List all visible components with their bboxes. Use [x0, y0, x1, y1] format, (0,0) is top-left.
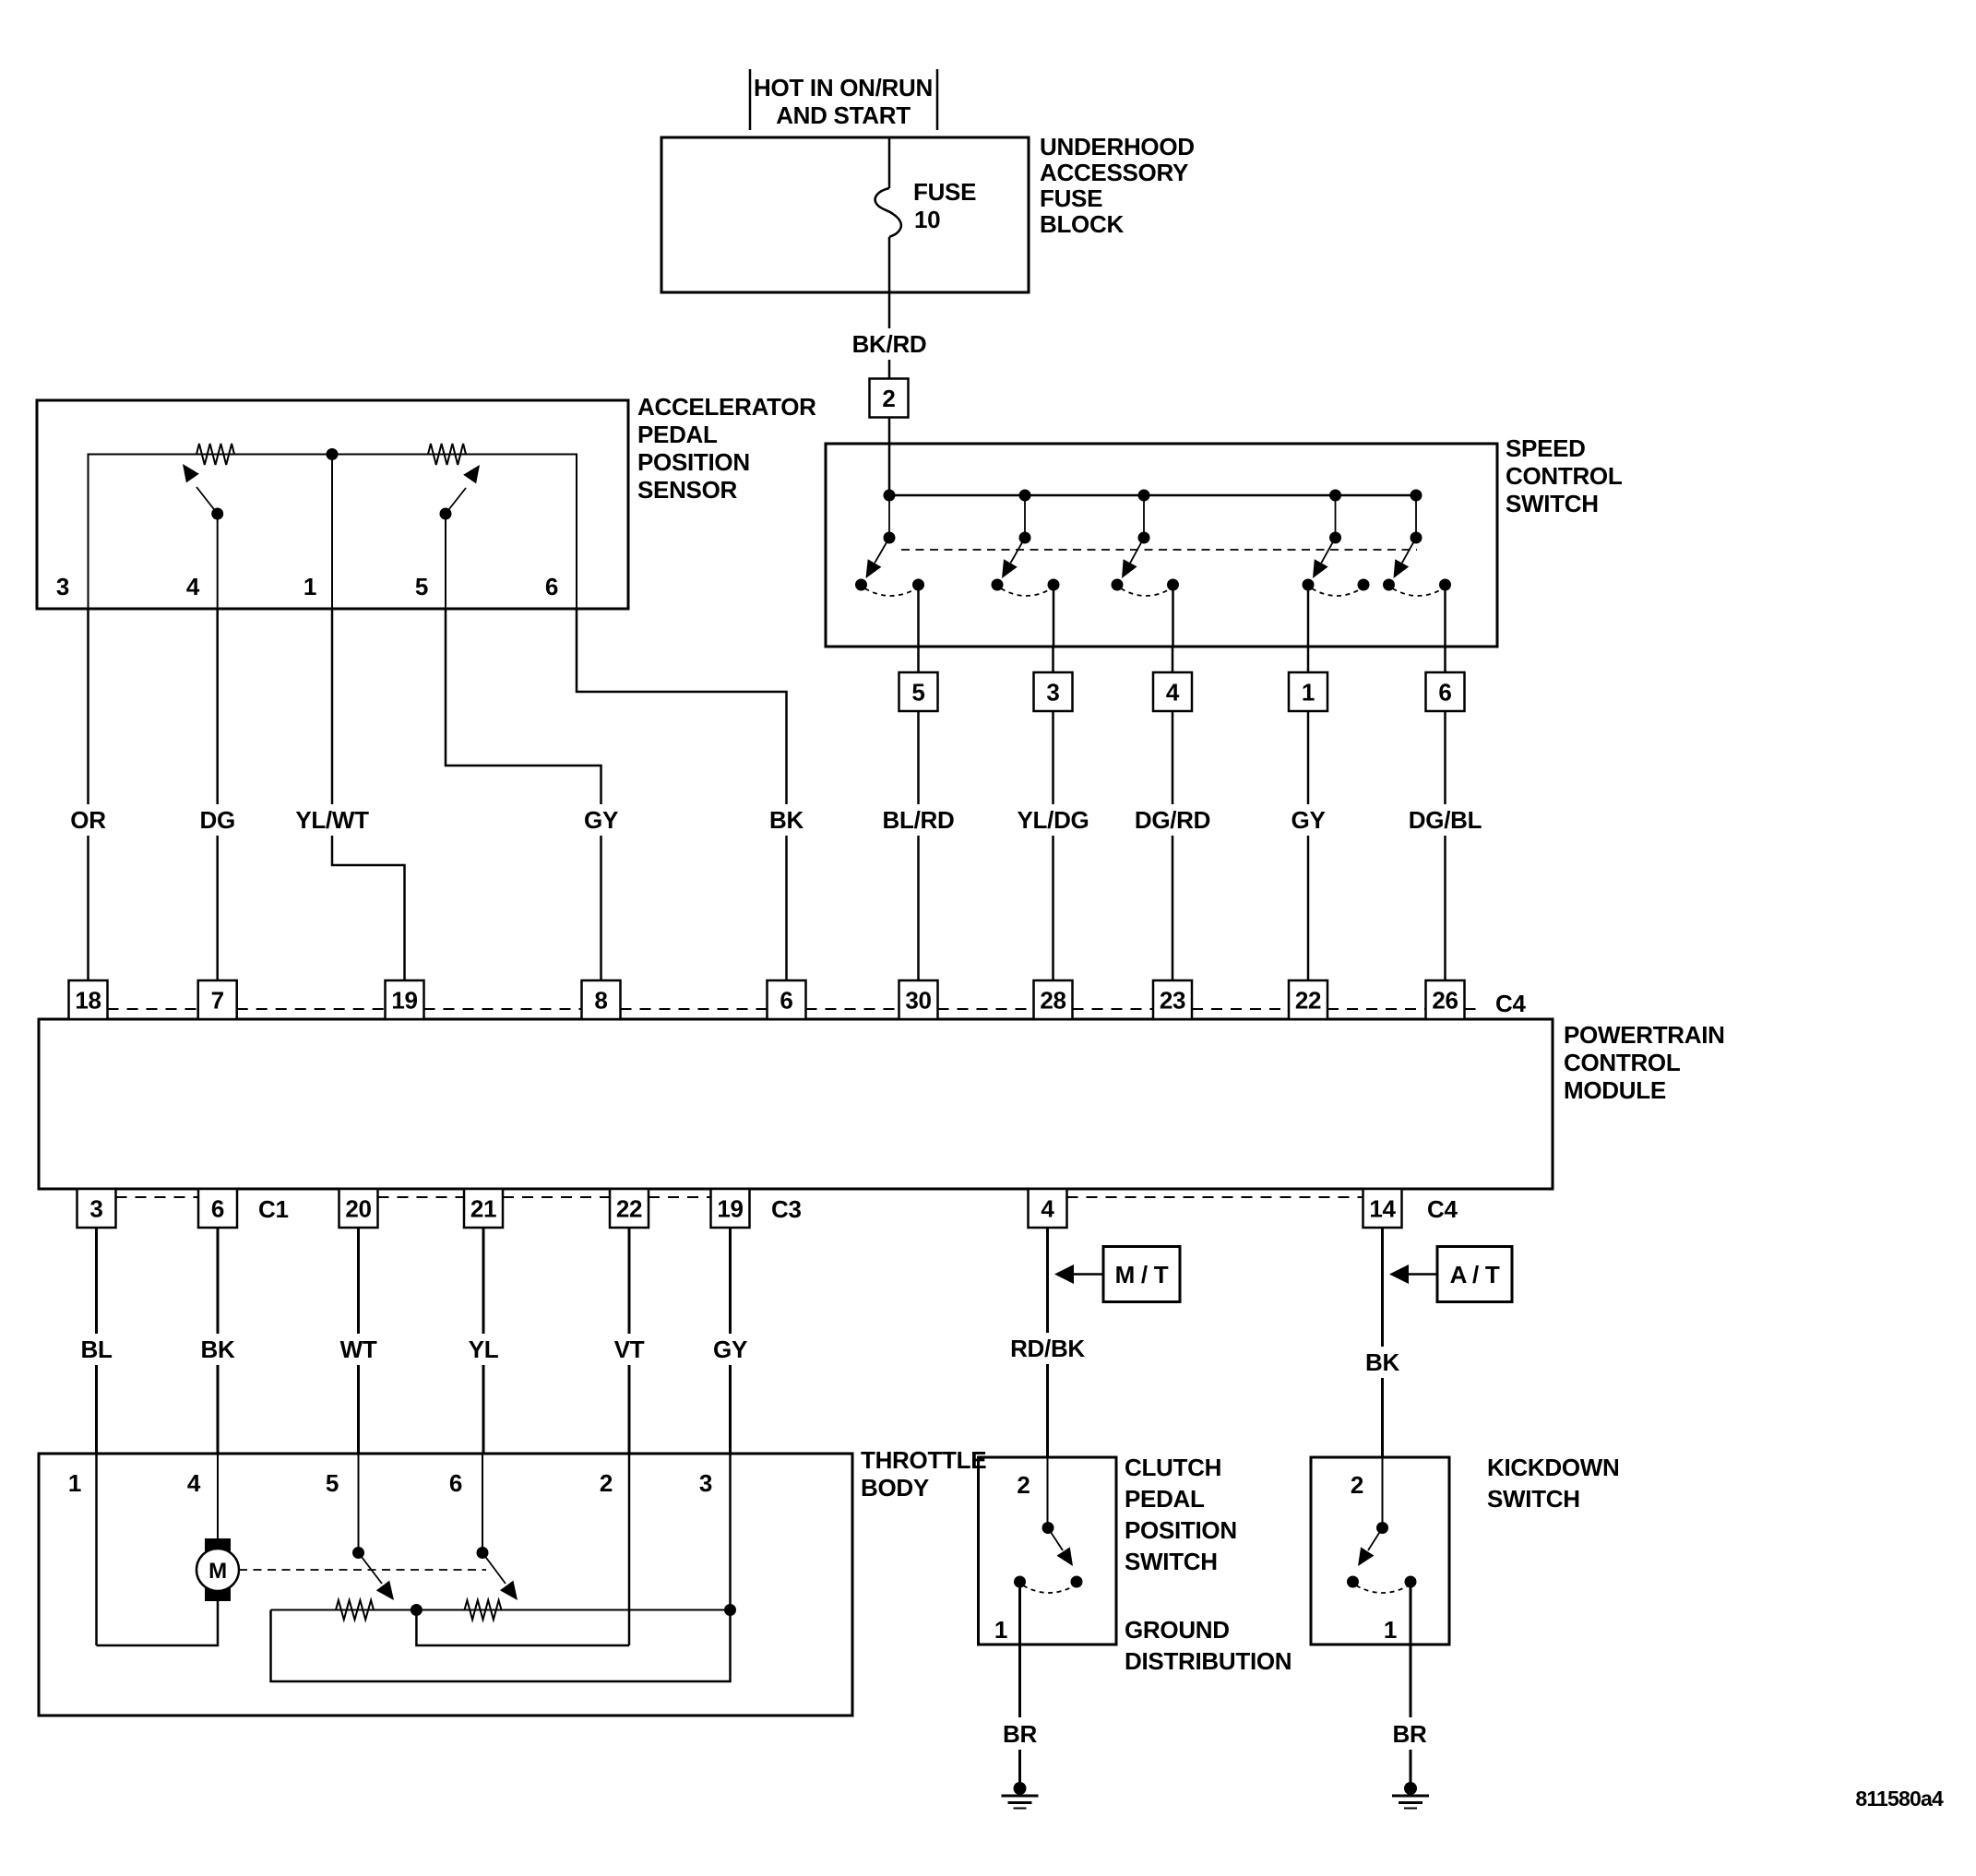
M/T manual transmission flag: [1054, 1247, 1180, 1302]
PCM bottom connector pin 6: [198, 1189, 237, 1228]
TPS wiper 2 (pin 6): [477, 1454, 518, 1600]
PCM connector C4 pin 7: [198, 980, 237, 1019]
svg-text:28: 28: [1040, 987, 1065, 1015]
speed control switch 1 (ON): [855, 490, 924, 647]
node junction between TPS tracks: [411, 1604, 423, 1616]
wire DG/BL from switch pin 6 to PCM pin 26: [1406, 711, 1484, 980]
svg-text:SWITCH: SWITCH: [1125, 1548, 1218, 1575]
svg-text:19: 19: [391, 987, 417, 1015]
PCM bottom connector pin 20: [339, 1189, 378, 1228]
svg-text:GY: GY: [1292, 806, 1326, 834]
svg-text:GY: GY: [713, 1336, 747, 1363]
svg-text:6: 6: [780, 987, 792, 1015]
wire entry to bus: [888, 444, 891, 495]
underhood accessory fuse block: [661, 133, 1195, 292]
speed control switch box: [826, 434, 1623, 647]
svg-text:DG/RD: DG/RD: [1135, 806, 1210, 834]
wire VT from PCM to throttle body pin 2: [611, 1228, 648, 1454]
fuse FUSE 10: [875, 178, 976, 237]
svg-text:PEDAL: PEDAL: [1125, 1485, 1205, 1513]
wire DG from APPS pin 4 to PCM pin 7: [199, 609, 236, 980]
wire WT from PCM to throttle body pin 5: [340, 1228, 377, 1454]
svg-text:C4: C4: [1427, 1195, 1458, 1223]
PCM top connector dashed separators: [108, 1008, 1484, 1010]
connector pin 2: [870, 379, 909, 418]
APPS internal rail wire: [89, 455, 577, 610]
svg-text:2: 2: [882, 385, 895, 412]
svg-text:M: M: [208, 1559, 227, 1584]
clutch switch contact and arm: [1014, 1457, 1083, 1593]
svg-text:YL: YL: [469, 1336, 499, 1363]
TPS wiper 1 (pin 5): [352, 1454, 394, 1600]
svg-text:3: 3: [699, 1469, 712, 1497]
PCM connector C4 pin 6: [768, 980, 806, 1019]
svg-text:5: 5: [911, 679, 924, 706]
wire pin 3 (GY) through rail to bottom loop: [271, 1454, 731, 1681]
connector pin 6 of speed control switch: [1426, 647, 1465, 711]
svg-text:26: 26: [1432, 987, 1458, 1015]
svg-text:YL/DG: YL/DG: [1018, 806, 1089, 834]
svg-text:8: 8: [594, 987, 607, 1015]
powertrain control module box: [39, 1019, 1725, 1189]
wire from fuse block top to fuse: [888, 137, 891, 188]
wire connector 2 to speed control switch: [888, 418, 891, 445]
svg-text:OR: OR: [70, 806, 106, 834]
A/T automatic transmission flag: [1389, 1247, 1512, 1302]
svg-text:BR: BR: [1003, 1720, 1037, 1748]
PCM connector C4 pin 23: [1153, 980, 1192, 1019]
svg-text:KICKDOWN: KICKDOWN: [1487, 1454, 1619, 1481]
wire pin 1 (inside APPS): [331, 455, 333, 610]
resistor R4 (TPS track 2): [465, 1600, 502, 1620]
svg-text:4: 4: [186, 573, 200, 600]
PCM bottom connector pin 19: [711, 1189, 750, 1228]
svg-text:4: 4: [1041, 1195, 1054, 1223]
accelerator pedal position sensor box: [37, 393, 816, 609]
resistor R2 (APPS track 2): [428, 444, 466, 465]
svg-text:FUSE: FUSE: [1040, 184, 1102, 212]
svg-text:5: 5: [326, 1469, 339, 1497]
svg-text:C4: C4: [1495, 990, 1526, 1017]
PCM bottom connector pin 14: [1363, 1189, 1402, 1228]
svg-text:2: 2: [1351, 1471, 1363, 1499]
PCM connector C4 pin 28: [1034, 980, 1073, 1019]
svg-text:6: 6: [545, 573, 558, 600]
svg-text:HOT IN ON/RUN: HOT IN ON/RUN: [754, 74, 933, 101]
svg-text:4: 4: [187, 1469, 201, 1497]
PCM connector C4 pin 8: [582, 980, 621, 1019]
svg-text:3: 3: [89, 1195, 102, 1223]
svg-text:30: 30: [905, 987, 931, 1015]
PCM connector C4 pin 18: [69, 980, 108, 1019]
wire kickdown pin 1 to ground (BR): [1391, 1582, 1428, 1782]
svg-text:2: 2: [1017, 1471, 1030, 1499]
svg-text:WT: WT: [340, 1336, 377, 1363]
svg-text:ACCESSORY: ACCESSORY: [1040, 159, 1188, 186]
kickdown switch contact and arm: [1347, 1457, 1417, 1593]
svg-text:POSITION: POSITION: [637, 448, 750, 476]
wire BL/RD from switch pin 5 to PCM pin 30: [879, 711, 958, 980]
wire YL from PCM to throttle body pin 6: [465, 1228, 502, 1454]
wire OR from APPS pin 3 to PCM pin 18: [70, 609, 107, 980]
svg-text:ACCELERATOR: ACCELERATOR: [637, 393, 816, 421]
svg-text:CONTROL: CONTROL: [1564, 1049, 1681, 1076]
wire BK from PCM to throttle body pin 4: [199, 1228, 236, 1454]
connector pin 4 of speed control switch: [1153, 647, 1192, 711]
svg-text:SWITCH: SWITCH: [1487, 1485, 1580, 1513]
wire pin 4 to motor: [217, 1454, 219, 1538]
svg-text:BODY: BODY: [861, 1474, 929, 1502]
svg-text:POSITION: POSITION: [1125, 1516, 1237, 1544]
svg-text:C3: C3: [771, 1195, 802, 1223]
svg-text:SENSOR: SENSOR: [637, 476, 738, 504]
speed control switch 5 (OFF): [1383, 490, 1451, 647]
svg-text:YL/WT: YL/WT: [295, 806, 369, 834]
wire clutch pin 1 to ground (BR): [1002, 1582, 1039, 1782]
svg-text:1: 1: [1302, 679, 1315, 706]
svg-text:DISTRIBUTION: DISTRIBUTION: [1125, 1647, 1292, 1675]
wire BK/RD from fuse to connector 2: [851, 237, 929, 379]
svg-text:GY: GY: [584, 806, 618, 834]
wire GY from PCM to throttle body pin 3: [712, 1228, 749, 1454]
svg-text:M / T: M / T: [1115, 1261, 1169, 1288]
svg-text:SPEED: SPEED: [1506, 434, 1586, 462]
svg-text:6: 6: [1438, 679, 1451, 706]
PCM bottom connector pin 3: [77, 1189, 116, 1228]
svg-text:19: 19: [717, 1195, 743, 1223]
APPS wiper 1 (pin 4): [183, 464, 223, 609]
wire GY from switch pin 1 to PCM pin 22: [1290, 711, 1327, 980]
svg-text:AND START: AND START: [776, 101, 911, 129]
PCM bottom connector dashed separators: [116, 1196, 1363, 1198]
svg-text:FUSE: FUSE: [913, 178, 976, 206]
svg-text:BR: BR: [1393, 1720, 1427, 1748]
svg-text:1: 1: [994, 1616, 1007, 1644]
wire motor to pin 1 loop: [97, 1454, 219, 1645]
svg-text:20: 20: [345, 1195, 371, 1223]
svg-text:BK/RD: BK/RD: [852, 330, 927, 358]
mechanical coupling dashed line: [901, 549, 1417, 551]
svg-text:BL/RD: BL/RD: [883, 806, 955, 834]
power feed label HOT IN ON/RUN AND START: [750, 69, 937, 130]
svg-text:3: 3: [56, 573, 69, 600]
svg-text:3: 3: [1046, 679, 1059, 706]
connector pin 5 of speed control switch: [899, 647, 938, 711]
ground symbol (kickdown): [1410, 1782, 1412, 1788]
svg-text:7: 7: [211, 987, 224, 1015]
speed control switch 4 (CANCEL): [1303, 490, 1370, 647]
svg-text:6: 6: [211, 1195, 224, 1223]
PCM connector C4 pin 19: [386, 980, 424, 1019]
resistor R3 (TPS track 1): [336, 1600, 374, 1620]
svg-text:2: 2: [600, 1469, 613, 1497]
PCM connector C4 pin 22: [1289, 980, 1327, 1019]
svg-text:14: 14: [1369, 1195, 1396, 1223]
svg-text:MODULE: MODULE: [1564, 1076, 1666, 1104]
svg-text:1: 1: [68, 1469, 81, 1497]
svg-text:1: 1: [304, 573, 316, 600]
TPS resistor rail: [271, 1609, 731, 1611]
PCM connector C4 pin 30: [899, 980, 938, 1019]
svg-text:THROTTLE: THROTTLE: [861, 1446, 986, 1474]
throttle body box: [39, 1446, 986, 1716]
svg-text:18: 18: [75, 987, 101, 1015]
svg-text:GROUND: GROUND: [1125, 1616, 1230, 1644]
svg-text:UNDERHOOD: UNDERHOOD: [1040, 133, 1195, 160]
wire YL/WT from APPS pin 1 to PCM pin 19: [293, 609, 405, 980]
svg-text:PEDAL: PEDAL: [637, 421, 718, 448]
connector pin 1 of speed control switch: [1289, 647, 1327, 711]
svg-text:DG/BL: DG/BL: [1409, 806, 1482, 834]
PCM bottom connector pin 4: [1029, 1189, 1067, 1228]
svg-text:21: 21: [470, 1195, 496, 1223]
resistor R1 (APPS track 1): [196, 444, 234, 465]
svg-text:811580a4: 811580a4: [1855, 1787, 1944, 1811]
svg-text:22: 22: [616, 1195, 642, 1223]
svg-text:1: 1: [1384, 1616, 1397, 1644]
svg-text:23: 23: [1160, 987, 1185, 1015]
svg-text:POWERTRAIN: POWERTRAIN: [1564, 1021, 1725, 1049]
wire BK from PCM pin 14 to kickdown switch: [1364, 1228, 1401, 1457]
svg-text:BLOCK: BLOCK: [1040, 210, 1124, 238]
svg-text:22: 22: [1295, 987, 1321, 1015]
wire BL from PCM to throttle body pin 1: [78, 1228, 115, 1454]
clutch pedal position switch box: [979, 1454, 1237, 1644]
svg-text:BK: BK: [201, 1336, 235, 1363]
PCM connector C4 pin 26: [1426, 980, 1465, 1019]
mechanical coupling dashed line (motor to TPS wipers): [239, 1569, 486, 1571]
wire BK from APPS pin 6 to PCM pin 6: [577, 609, 805, 980]
svg-text:6: 6: [449, 1469, 462, 1497]
svg-text:VT: VT: [614, 1336, 645, 1363]
svg-text:SWITCH: SWITCH: [1506, 490, 1599, 517]
bus wire: [889, 494, 1416, 497]
svg-text:CONTROL: CONTROL: [1506, 462, 1623, 490]
APPS wiper 2 (pin 5): [440, 465, 481, 609]
svg-text:BK: BK: [769, 806, 803, 834]
PCM bottom connector pin 21: [464, 1189, 503, 1228]
ground distribution label: [1125, 1616, 1292, 1675]
connector pin 3 of speed control switch: [1034, 647, 1073, 711]
PCM bottom connector pin 22: [610, 1189, 649, 1228]
svg-text:4: 4: [1166, 679, 1180, 706]
svg-text:A / T: A / T: [1450, 1261, 1500, 1288]
svg-text:BL: BL: [80, 1336, 112, 1363]
svg-text:RD/BK: RD/BK: [1010, 1335, 1085, 1362]
speed control switch 3 (RESUME/ACCEL): [1112, 490, 1180, 647]
ground symbol (clutch): [1018, 1782, 1021, 1788]
svg-text:10: 10: [914, 206, 940, 233]
node pin1 junction on rail: [327, 448, 339, 460]
svg-text:5: 5: [415, 573, 428, 600]
wire RD/BK from PCM pin 4 to clutch pedal position switch: [1008, 1228, 1087, 1457]
motor M (throttle actuator): [196, 1538, 239, 1601]
speed control switch 2 (SET/COAST): [992, 490, 1060, 647]
wire GY from APPS pin 5 to PCM pin 8: [446, 609, 620, 980]
kickdown switch box: [1311, 1454, 1619, 1644]
wire DG/RD from switch pin 4 to PCM pin 23: [1134, 711, 1212, 980]
svg-text:DG: DG: [199, 806, 234, 834]
svg-text:BK: BK: [1365, 1348, 1399, 1376]
svg-text:CLUTCH: CLUTCH: [1125, 1454, 1221, 1481]
wire junction to pin 2 (VT): [416, 1454, 629, 1645]
node junction on GY wire (pin 3): [724, 1604, 736, 1616]
wire YL/DG from switch pin 3 to PCM pin 28: [1014, 711, 1092, 980]
svg-text:C1: C1: [258, 1195, 289, 1223]
